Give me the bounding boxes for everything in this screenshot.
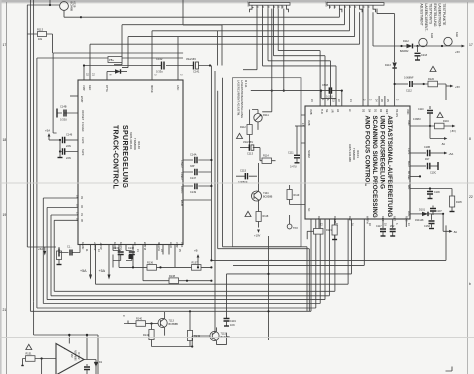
op-amp IC102 (21, 334, 102, 374)
wire (268, 9, 331, 106)
capacitor C10B (410, 152, 426, 154)
svg-text:REF: REF (88, 85, 92, 91)
pin 17 stub left (295, 125, 305, 127)
wire (362, 9, 364, 106)
supply +5A (90, 245, 92, 275)
wire (349, 9, 351, 31)
svg-text:C119: C119 (230, 320, 236, 323)
page corner mark (446, 367, 453, 372)
supply +5A (48, 135, 50, 140)
wire (218, 91, 310, 311)
wire WDB (183, 199, 211, 201)
wire (37, 57, 183, 59)
components right of IC2 (410, 106, 462, 215)
wire (96, 219, 349, 284)
supply -5A (449, 230, 452, 233)
svg-text:R140: R140 (136, 318, 143, 321)
svg-text:22: 22 (469, 195, 473, 199)
capacitor C117 (382, 219, 384, 228)
svg-text:R105: R105 (456, 201, 462, 204)
svg-text:+5A: +5A (38, 247, 43, 251)
svg-text:C147: C147 (190, 177, 197, 180)
svg-text:C218: C218 (421, 54, 428, 57)
svg-text:CLPF: CLPF (81, 137, 85, 144)
svg-text:R 111: R 111 (244, 80, 248, 88)
svg-text:ASC: ASC (176, 85, 180, 90)
svg-text:LASERCURRENT-: LASERCURRENT- (424, 4, 428, 32)
svg-text:33U/16V: 33U/16V (243, 140, 253, 144)
svg-text:2/2: 2/2 (70, 354, 73, 358)
svg-text:LD: LD (133, 242, 137, 245)
svg-text:+LOSP: +LOSP (93, 242, 97, 251)
svg-text:0.47U: 0.47U (290, 166, 297, 169)
transistor T113 (158, 318, 167, 327)
svg-text:LASERCURRENT ADJUSTM.: LASERCURRENT ADJUSTM. (237, 80, 241, 116)
transistor T104 (252, 191, 262, 201)
wire (268, 236, 270, 340)
svg-text:VMP: VMP (175, 242, 179, 248)
svg-text:10N: 10N (230, 324, 235, 327)
wire (373, 45, 462, 47)
capacitor C10C (410, 165, 426, 167)
svg-text:VMB: VMB (307, 120, 310, 126)
supply +10V (257, 230, 260, 233)
svg-text:CDEO: CDEO (180, 172, 184, 180)
svg-text:R121: R121 (326, 229, 332, 232)
pin 21 (89, 66, 91, 81)
svg-text:SC: SC (307, 208, 310, 212)
capacitor C111 (296, 126, 298, 155)
svg-text:RDCC: RDCC (180, 186, 184, 194)
capacitor C112 (395, 83, 408, 85)
wire pin BP REF (410, 175, 420, 177)
wire (223, 78, 308, 312)
capacitor C142 (162, 62, 165, 70)
resistor R138 (143, 245, 169, 281)
diode cluster right of IC2 bottom (410, 209, 457, 235)
svg-text:C10B: C10B (424, 146, 430, 149)
wire (278, 9, 320, 106)
pin 22 (83, 66, 85, 81)
capacitor C508 near laser box (251, 84, 343, 169)
svg-text:C141: C141 (193, 70, 200, 74)
wire (152, 30, 350, 32)
svg-text:1N4148: 1N4148 (415, 219, 424, 222)
svg-text:R120: R120 (428, 78, 435, 81)
wire (377, 9, 395, 58)
resistor R121 (334, 219, 336, 225)
svg-text:HF-ON: HF-ON (395, 109, 398, 117)
connector 203 (325, 2, 385, 13)
svg-text:WDB: WDB (180, 200, 184, 206)
svg-text:LF: LF (348, 109, 351, 112)
svg-text:BAW62: BAW62 (400, 50, 409, 53)
svg-text:REC: REC (381, 216, 384, 221)
capacitor C14A (183, 159, 211, 161)
op-amp triangle U102 (56, 344, 84, 374)
wire (263, 9, 337, 106)
wire (43, 198, 320, 304)
svg-text:LIAO: LIAO (169, 242, 173, 248)
pin 6 (106, 72, 108, 81)
wire (122, 37, 355, 68)
wire (37, 58, 316, 308)
svg-text:R136: R136 (147, 262, 154, 265)
svg-text:LASERSTROM-EINSTELLUNG: LASERSTROM-EINSTELLUNG (240, 80, 244, 118)
svg-text:VMB: VMB (309, 109, 312, 115)
svg-text:C115: C115 (240, 169, 247, 173)
wire pins down (319, 219, 406, 229)
components below IC2 (307, 219, 406, 240)
wire (372, 12, 374, 46)
svg-text:206: 206 (247, 2, 251, 7)
supply -5A (430, 126, 444, 139)
wire (90, 44, 360, 65)
svg-text:CLPF: CLPF (407, 148, 410, 155)
pin 2 (177, 37, 179, 80)
scan crease lines (0, 183, 474, 338)
svg-text:(-5V): (-5V) (450, 129, 456, 133)
svg-text:R112: R112 (240, 126, 246, 129)
svg-text:WD: WD (407, 185, 410, 189)
potentiometer R111 (254, 114, 262, 122)
svg-text:VDD: VDD (407, 120, 410, 125)
IC2 pin stubs and labels (295, 99, 410, 226)
svg-text:6305-338-491: 6305-338-491 (129, 132, 133, 150)
svg-text:LASERSTROM-: LASERSTROM- (438, 4, 442, 28)
diode D1B (107, 71, 115, 73)
svg-text:33u/16V: 33u/16V (186, 57, 196, 61)
testpoint TP2 (289, 215, 291, 224)
wire (338, 9, 340, 18)
svg-text:C146: C146 (66, 133, 73, 137)
wire (81, 16, 339, 18)
svg-text:UR: UR (331, 109, 334, 113)
svg-text:WBTM: WBTM (143, 242, 147, 250)
resistor R137 (192, 265, 202, 271)
svg-text:FE2: FE2 (348, 216, 351, 221)
svg-text:RET: RET (385, 109, 388, 114)
wire (283, 9, 285, 91)
wire (53, 53, 183, 133)
svg-text:ADJUSTMENT: ADJUSTMENT (420, 4, 424, 26)
svg-text:R104: R104 (443, 120, 449, 123)
wire pins down (119, 245, 175, 268)
svg-text:+5A: +5A (99, 269, 106, 273)
svg-text:8: 8 (469, 137, 471, 141)
bottom wire bus (track/focus lines) (30, 58, 446, 340)
svg-text:+5V: +5V (455, 85, 460, 89)
svg-text:18: 18 (3, 138, 7, 142)
resistor R114 (262, 158, 272, 163)
svg-text:+10V: +10V (254, 234, 261, 238)
svg-text:+5A: +5A (80, 269, 87, 273)
svg-text:C117: C117 (376, 225, 382, 228)
capacitors right of IC1 (183, 153, 212, 201)
connector hook (124, 321, 128, 324)
svg-text:SCANNING SIGNAL PROCESSING: SCANNING SIGNAL PROCESSING (371, 116, 378, 218)
IC U101 TDA8808 (focus control) (305, 106, 410, 219)
svg-text:C10C: C10C (430, 172, 436, 175)
svg-text:TRACK-CONTROL: TRACK-CONTROL (112, 125, 119, 190)
svg-text:R111: R111 (263, 113, 269, 117)
svg-text:C149: C149 (190, 191, 197, 194)
supply +5A (108, 245, 110, 275)
svg-text:C1..: C1.. (67, 246, 72, 249)
svg-text:D101: D101 (419, 209, 426, 212)
svg-text:1% REF: 1% REF (81, 122, 85, 132)
capacitor C141 (polarized) (193, 62, 195, 70)
wire (227, 219, 352, 319)
wire pin WMP (70, 95, 78, 97)
capacitor C116 (224, 319, 230, 322)
supply +5A (43, 251, 46, 256)
svg-text:NORM: NORM (307, 150, 310, 158)
capacitor C146 (59, 139, 61, 141)
svg-text:D112: D112 (403, 40, 409, 43)
svg-text:SPURREGELUNG: SPURREGELUNG (121, 125, 128, 189)
capacitor C132 (126, 245, 132, 251)
laser adjustment enclosure box (233, 78, 302, 247)
svg-text:A305-336-988: A305-336-988 (348, 144, 352, 162)
wire (214, 71, 217, 332)
svg-text:TESTPOINTS: TESTPOINTS (429, 4, 433, 25)
svg-text:DTYA: DTYA (105, 85, 109, 92)
svg-text:6114: 6114 (455, 32, 458, 38)
svg-text:C14A: C14A (190, 153, 197, 157)
svg-text:ROC: ROC (404, 216, 407, 222)
diode D113 (394, 58, 396, 62)
resistor R120 (423, 83, 425, 85)
transistor T114 (testpoint) (444, 37, 452, 45)
svg-text:LR: LR (336, 109, 339, 112)
transistor T112 (testpoint) (419, 38, 427, 46)
resistor R139 (57, 251, 62, 260)
resistor R113 (38, 32, 47, 37)
svg-text:UND FOKUSREGELUNG: UND FOKUSREGELUNG (379, 116, 386, 190)
svg-text:AND FOCUS CONTROL: AND FOCUS CONTROL (364, 116, 371, 187)
wire (367, 9, 369, 106)
diode D133 (129, 255, 134, 259)
wire (54, 219, 335, 291)
capacitor C145 (59, 140, 61, 152)
svg-text:R137: R137 (192, 262, 199, 265)
IC1 pin stubs and labels (76, 31, 185, 253)
svg-text:MDSR: MDSR (150, 85, 154, 93)
svg-text:0.33U: 0.33U (326, 96, 333, 99)
svg-text:ABTASTSIGNAL-AUFBEREITUNG: ABTASTSIGNAL-AUFBEREITUNG (386, 116, 393, 218)
svg-text:BC858B: BC858B (263, 196, 273, 199)
wire (354, 9, 356, 37)
svg-text:22N: 22N (66, 144, 71, 148)
svg-text:C132: C132 (128, 247, 135, 250)
svg-text:22N: 22N (66, 156, 71, 160)
capacitor C218 (417, 46, 419, 52)
svg-text:6112: 6112 (430, 33, 433, 39)
svg-text:BC858B: BC858B (169, 323, 179, 326)
capacitor C113 (elco) (240, 141, 260, 148)
testpoint label block (420, 4, 447, 32)
diode D112 (407, 44, 413, 48)
components left of IC1 (45, 96, 78, 160)
warning triangle (237, 133, 243, 138)
capacitor C110 (429, 106, 431, 109)
svg-text:C508: C508 (322, 84, 329, 87)
laser adjustment circuit contents (236, 91, 305, 238)
svg-text:+5A: +5A (449, 152, 454, 156)
capacitor C1S6 (431, 214, 433, 220)
svg-text:+B: +B (194, 249, 198, 253)
svg-text:2N2: 2N2 (390, 225, 395, 228)
wire (47, 208, 325, 300)
svg-text:R114: R114 (263, 155, 269, 158)
svg-text:R113: R113 (37, 28, 44, 32)
svg-text:C112: C112 (406, 90, 412, 93)
svg-text:0.33u: 0.33u (156, 70, 163, 74)
capacitor C152 (86, 364, 88, 366)
pin 3 (151, 31, 153, 80)
connector 206 fan-out wires (243, 9, 336, 106)
svg-text:-5A: -5A (441, 142, 445, 146)
wire (236, 175, 250, 177)
capacitor C115 (236, 175, 257, 177)
transistor T128 top-left (27, 0, 82, 53)
svg-text:RADR: RADR (81, 242, 85, 249)
op-amp servo IC U100 (track control) (78, 80, 183, 245)
svg-text:D113: D113 (385, 64, 391, 67)
svg-text:TLR: TLR (320, 109, 323, 114)
capacitor C147 (183, 171, 211, 173)
wire (274, 9, 326, 106)
svg-text:C14B: C14B (60, 105, 67, 109)
C142 / C141 decoupling on top wire (83, 57, 211, 74)
pin stubs left (301, 115, 305, 143)
resistor R118 (256, 212, 261, 222)
wire (211, 66, 446, 261)
svg-text:0.068U: 0.068U (413, 118, 421, 121)
svg-text:C107: C107 (436, 210, 442, 213)
wire ground test (59, 245, 80, 253)
wire (183, 0, 222, 66)
resistor R151 (23, 359, 26, 366)
resistor R119 (287, 190, 292, 200)
svg-text:BC848B: BC848B (70, 2, 74, 12)
wire (114, 25, 345, 65)
svg-text:R138: R138 (169, 275, 176, 278)
svg-text:BP REF: BP REF (407, 171, 410, 180)
svg-text:C142: C142 (156, 57, 163, 61)
svg-text:EINSTELLUNG: EINSTELLUNG (433, 4, 437, 27)
svg-text:SLPF: SLPF (81, 149, 85, 156)
svg-text:-5A: -5A (453, 230, 457, 234)
bottom middle transistor stage (122, 310, 236, 347)
svg-text:TESTPUNKTE: TESTPUNKTE (442, 4, 446, 27)
resistor R141 (151, 324, 153, 330)
warning triangle (430, 66, 436, 71)
wire (84, 65, 210, 67)
resistor R142 (189, 311, 191, 330)
svg-text:R119: R119 (294, 194, 300, 197)
components below IC1 (59, 245, 212, 284)
capacitor C14B (57, 112, 78, 114)
supply +5V (462, 45, 465, 48)
svg-text:19: 19 (3, 213, 7, 217)
resistor R112 (247, 125, 252, 135)
svg-text:VDD: VDD (406, 109, 409, 114)
wire (27, 0, 81, 17)
supply +5V (446, 85, 450, 87)
top right testpoint circuit (373, 32, 465, 60)
wire emitter (217, 333, 227, 345)
svg-text:VSS: VSS (180, 242, 184, 247)
warning triangle (437, 112, 443, 117)
svg-text:C111: C111 (288, 152, 294, 155)
capacitor C118 (392, 219, 394, 228)
resistor R105 (430, 189, 452, 197)
svg-text:4N7: 4N7 (425, 158, 430, 161)
svg-text:17: 17 (469, 43, 473, 47)
capacitor C107 (432, 206, 434, 208)
wire (233, 219, 364, 265)
warning triangle (245, 211, 251, 216)
svg-text:0.33U: 0.33U (60, 118, 67, 122)
diode D152 (95, 360, 97, 362)
wire (30, 219, 311, 311)
supply +B (197, 256, 199, 267)
svg-text:+5A: +5A (45, 129, 50, 133)
svg-text:WMP: WMP (80, 96, 84, 103)
svg-text:b: b (469, 282, 471, 286)
svg-text:VMP: VMP (82, 85, 86, 91)
right components column above IC2 (385, 58, 460, 106)
svg-text:+5V: +5V (455, 50, 460, 54)
svg-text:33P: 33P (190, 165, 195, 168)
wire (243, 9, 257, 70)
top horizontal bus (37, 0, 360, 133)
svg-text:R141: R141 (143, 334, 150, 337)
transistor T115 (210, 331, 219, 340)
svg-text:17: 17 (3, 43, 7, 47)
svg-text:R118: R118 (263, 215, 269, 218)
resistor R136 (119, 245, 147, 268)
wire (344, 9, 346, 25)
svg-text:PB+: PB+ (109, 58, 114, 62)
capacitor C131 (113, 245, 121, 251)
connector 206 (247, 2, 291, 13)
svg-text:203: 203 (325, 2, 329, 7)
supply -5V (452, 125, 455, 128)
svg-text:0.068NF: 0.068NF (404, 77, 414, 80)
svg-text:FE: FE (317, 216, 320, 220)
node (49, 4, 51, 6)
wire (69, 335, 96, 374)
wire (379, 96, 385, 106)
connector 203 fan-out wires (339, 9, 394, 106)
wire (359, 12, 361, 44)
warning triangle (26, 344, 32, 349)
svg-text:C113: C113 (247, 152, 254, 156)
svg-text:CSEO: CSEO (180, 160, 184, 167)
wire (51, 215, 329, 296)
svg-text:OFFSET: OFFSET (81, 110, 85, 121)
resistor R140 (128, 323, 136, 325)
svg-text:BGO: BGO (407, 161, 410, 167)
resistor R122 (314, 229, 324, 235)
svg-text:R151: R151 (26, 353, 33, 356)
left vertical bus wires (27, 0, 98, 374)
svg-text:C1S6: C1S6 (424, 225, 431, 228)
svg-text:C106: C106 (434, 191, 440, 194)
